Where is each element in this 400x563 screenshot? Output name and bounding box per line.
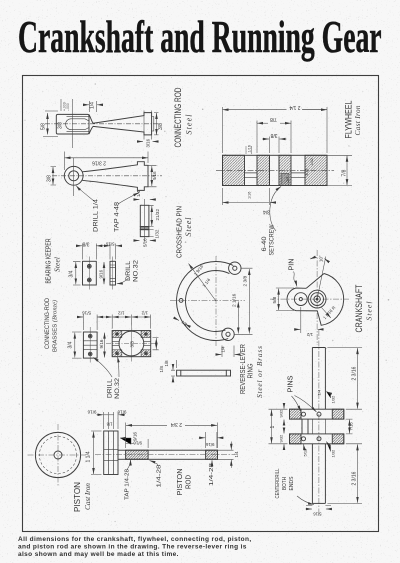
svg-text:2 3/16: 2 3/16 (352, 366, 358, 380)
svg-text:9/16: 9/16 (205, 442, 214, 447)
svg-text:9/16: 9/16 (152, 171, 157, 180)
svg-text:1/2: 1/2 (141, 311, 148, 316)
svg-text:1: 1 (270, 426, 276, 429)
svg-text:DRILL: DRILL (108, 378, 114, 398)
svg-text:9/32: 9/32 (279, 409, 284, 418)
svg-text:5/8: 5/8 (272, 296, 278, 303)
svg-text:1/4: 1/4 (136, 190, 141, 197)
svg-text:CROSSHEAD PIN: CROSSHEAD PIN (175, 206, 184, 258)
svg-text:7/16: 7/16 (349, 422, 354, 431)
svg-text:BRASSES (Bronze): BRASSES (Bronze) (52, 300, 59, 352)
svg-text:Steel or Brass: Steel or Brass (255, 346, 264, 398)
svg-text:9/16: 9/16 (133, 441, 142, 446)
svg-text:9/16: 9/16 (99, 269, 104, 278)
svg-text:1/4: 1/4 (221, 346, 226, 353)
svg-text:5/16: 5/16 (143, 238, 148, 247)
svg-text:CONNECTING ROD: CONNECTING ROD (173, 87, 184, 147)
svg-text:1/32: 1/32 (331, 395, 336, 404)
svg-text:CENTERDRILL: CENTERDRILL (275, 469, 281, 499)
svg-text:3/4: 3/4 (68, 341, 74, 348)
svg-text:ENDS: ENDS (289, 476, 295, 490)
svg-text:CONNECTING-ROD: CONNECTING-ROD (44, 298, 51, 349)
svg-text:5/16: 5/16 (313, 512, 322, 517)
svg-text:RING: RING (246, 363, 255, 378)
svg-text:Steel: Steel (53, 257, 62, 272)
svg-text:2 3/16: 2 3/16 (92, 160, 106, 166)
svg-text:6-40: 6-40 (262, 236, 268, 252)
svg-text:2 1/4: 2 1/4 (289, 104, 300, 110)
svg-text:3/8: 3/8 (47, 175, 53, 182)
svg-text:7/8: 7/8 (342, 169, 348, 176)
svg-text:3/4: 3/4 (263, 209, 270, 215)
svg-text:5/16: 5/16 (82, 311, 91, 316)
svg-text:DRILL 1/4: DRILL 1/4 (94, 198, 100, 232)
svg-text:3/8: 3/8 (82, 240, 89, 246)
svg-text:FLYWHEEL: FLYWHEEL (344, 101, 354, 139)
svg-text:9/16: 9/16 (99, 339, 104, 348)
svg-text:3/16: 3/16 (305, 169, 309, 176)
svg-text:1/32: 1/32 (331, 449, 336, 458)
svg-text:PISTON: PISTON (72, 482, 82, 512)
svg-text:3/8: 3/8 (58, 122, 64, 129)
svg-text:TAP 4-48: TAP 4-48 (115, 201, 121, 232)
svg-text:1/4: 1/4 (317, 389, 322, 395)
svg-text:9/16: 9/16 (117, 410, 126, 415)
svg-text:1/4-28: 1/4-28 (157, 465, 163, 488)
svg-text:1/16: 1/16 (248, 145, 252, 152)
svg-text:BOTH: BOTH (282, 477, 288, 490)
svg-text:21/32: 21/32 (155, 209, 160, 221)
svg-text:and piston rod are shown in th: and piston rod are shown in the drawing.… (18, 544, 247, 551)
svg-text:PIN: PIN (289, 259, 296, 271)
svg-text:1/16: 1/16 (248, 192, 252, 199)
svg-text:7/8: 7/8 (270, 116, 277, 122)
svg-text:3/4: 3/4 (69, 270, 75, 277)
svg-text:1/4: 1/4 (234, 451, 239, 458)
svg-text:NO.32: NO.32 (134, 259, 140, 282)
svg-text:1/4: 1/4 (90, 102, 96, 109)
svg-text:All dimensions for the cranksh: All dimensions for the crankshaft, flywh… (18, 536, 252, 543)
svg-text:NO.32: NO.32 (115, 377, 121, 399)
svg-text:9/16: 9/16 (133, 432, 138, 441)
svg-text:1/4-28: 1/4-28 (209, 463, 215, 486)
svg-text:1/8: 1/8 (106, 422, 112, 427)
svg-text:2 3/8: 2 3/8 (243, 275, 249, 286)
svg-text:1/8: 1/8 (164, 360, 169, 367)
svg-text:-.000: -.000 (66, 103, 70, 111)
svg-text:Steel: Steel (365, 302, 374, 321)
svg-text:DRILL: DRILL (126, 260, 132, 281)
svg-text:9/16: 9/16 (87, 410, 96, 415)
svg-text:PINS: PINS (288, 375, 295, 392)
svg-text:Steel: Steel (185, 114, 194, 135)
svg-text:1/2: 1/2 (306, 332, 313, 337)
svg-text:2 3/4: 2 3/4 (171, 421, 182, 427)
svg-text:10°: 10° (319, 255, 324, 262)
svg-text:1 1/4: 1 1/4 (86, 451, 92, 462)
svg-text:TAP 1/4-28: TAP 1/4-28 (125, 469, 131, 500)
svg-text:3/16: 3/16 (146, 138, 151, 147)
svg-text:BEARING KEEPER: BEARING KEEPER (44, 238, 53, 283)
svg-text:Cast Iron: Cast Iron (83, 483, 92, 510)
svg-text:2 3/16: 2 3/16 (352, 471, 358, 485)
svg-text:ROD: ROD (184, 475, 193, 489)
svg-text:Steel: Steel (184, 217, 193, 237)
svg-text:5/8: 5/8 (41, 123, 47, 130)
svg-text:3/8: 3/8 (130, 341, 135, 348)
svg-text:5/16: 5/16 (303, 448, 308, 457)
svg-text:Crankshaft and Running Gear: Crankshaft and Running Gear (18, 13, 382, 62)
svg-text:Cast Iron: Cast Iron (353, 105, 362, 135)
svg-text:CRANKSHAFT: CRANKSHAFT (354, 284, 364, 332)
svg-text:3/8: 3/8 (158, 123, 164, 130)
svg-text:2 1/16: 2 1/16 (232, 293, 238, 307)
svg-text:also shown and may well be mad: also shown and may well be made at this … (18, 551, 179, 558)
svg-text:1/2: 1/2 (118, 311, 125, 316)
svg-text:9/32: 9/32 (279, 434, 284, 443)
svg-text:SETSCREW: SETSCREW (270, 224, 276, 255)
svg-text:1/32: 1/32 (155, 229, 160, 238)
svg-text:1/4: 1/4 (286, 177, 290, 182)
svg-text:1/32: 1/32 (310, 158, 314, 165)
svg-text:3/8: 3/8 (270, 132, 277, 138)
svg-text:5/16: 5/16 (105, 241, 114, 246)
